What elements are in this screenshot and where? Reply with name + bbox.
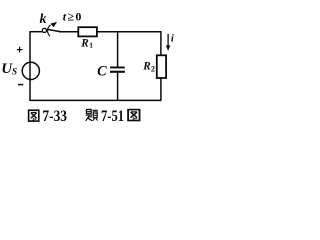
svg-text:i: i [171,34,174,45]
switch arrowhead [50,22,57,27]
caption char ti (problem) [86,109,98,121]
wire bottom [29,99,161,101]
svg-text:R: R [80,37,89,49]
wire top-left segment [30,31,42,33]
current arrow i [167,34,169,47]
switch action arc [48,25,51,37]
caption char tu (figure) [29,110,39,121]
switch k pivot [42,28,46,32]
svg-text:R: R [142,61,151,73]
caption char tu (figure) second [128,110,139,121]
resistor R2 [157,55,166,78]
svg-text:US: US [1,61,17,77]
voltage source US circle [22,62,39,79]
svg-text:1: 1 [89,41,93,50]
wire capacitor branch lower [117,73,119,101]
switch blade [47,29,62,32]
wire capacitor branch upper [117,32,119,67]
svg-text:k: k [40,12,47,27]
resistor R1 [78,27,97,36]
capacitor C plate top [110,67,125,69]
svg-text:7-51: 7-51 [101,108,124,125]
wire left vertical [29,31,31,100]
wire right vertical lower [160,78,162,101]
plus sign [17,47,23,53]
minus sign [18,84,23,86]
capacitor C plate bottom [110,71,125,73]
svg-text:2: 2 [151,64,155,73]
wire switch to R1 [59,31,78,33]
wire right vertical upper [160,32,162,56]
svg-text:7-33: 7-33 [42,108,67,125]
svg-text:C: C [97,63,107,79]
wire R1 to top-right corner [97,31,162,33]
svg-text:t≥0: t≥0 [63,9,83,23]
